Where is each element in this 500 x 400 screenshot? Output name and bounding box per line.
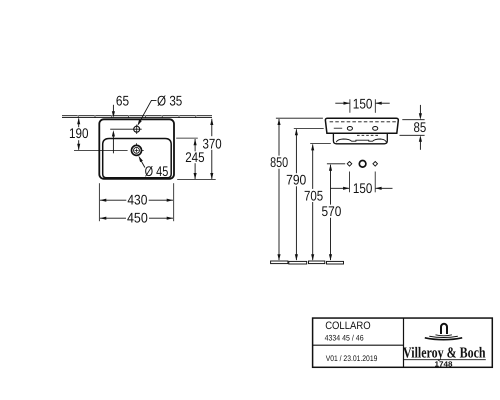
fixing hole right (oval) xyxy=(373,126,378,130)
wall tile line (plan) xyxy=(62,115,212,117)
washbasin inner bowl (plan) xyxy=(103,139,172,178)
title block frame xyxy=(313,318,493,367)
height ext line 705 xyxy=(310,143,331,145)
VB logo arch xyxy=(441,324,447,334)
drain center ticks xyxy=(135,149,139,151)
svg-text:Ø 45: Ø 45 xyxy=(145,163,169,179)
height ext line 790 xyxy=(294,127,324,129)
hidden dashes under body xyxy=(357,134,380,136)
VB logo wave 1 xyxy=(436,335,452,336)
tap hole centerlines xyxy=(110,128,142,130)
svg-text:65: 65 xyxy=(116,92,129,108)
fixing hole left (oval) xyxy=(347,126,352,130)
drain centerline (190 extension) xyxy=(74,149,128,151)
svg-text:705: 705 xyxy=(304,187,323,203)
VB wordmark underline xyxy=(404,359,486,361)
svg-text:150: 150 xyxy=(353,180,373,196)
connection diamond right xyxy=(373,162,378,167)
svg-text:85: 85 xyxy=(414,119,427,135)
svg-text:850: 850 xyxy=(270,154,288,170)
basin body (front elevation) xyxy=(325,118,398,133)
ext line bowl top right xyxy=(176,137,198,139)
dim 570 line xyxy=(329,164,332,170)
dim 190 line+arrows xyxy=(78,118,80,127)
leader for drain dia xyxy=(141,161,145,168)
VB logo wave 3 xyxy=(425,338,462,340)
svg-text:150: 150 xyxy=(353,96,373,112)
svg-text:COLLARO: COLLARO xyxy=(325,320,370,332)
svg-text:430: 430 xyxy=(127,192,147,208)
ext lines below basin xyxy=(98,183,100,221)
drain hole outer ring xyxy=(132,145,142,155)
svg-text:4334 45 / 46: 4334 45 / 46 xyxy=(325,333,364,342)
svg-text:Ø 35: Ø 35 xyxy=(157,92,182,108)
floor tile line xyxy=(271,261,344,264)
dim 65 upper arrow xyxy=(112,105,114,112)
drain fitting inner contour xyxy=(336,139,386,142)
leader for tap hole dia xyxy=(139,100,157,123)
title block vertical divider xyxy=(403,318,405,367)
svg-text:370: 370 xyxy=(203,135,222,151)
VB logo wave 2 xyxy=(429,336,458,337)
height ext line 850 xyxy=(276,117,323,119)
hidden rim line (dashed) xyxy=(330,121,396,123)
washbasin outer rim (plan) xyxy=(99,119,174,179)
svg-text:V01 / 23.01.2019: V01 / 23.01.2019 xyxy=(326,354,378,363)
svg-text:790: 790 xyxy=(286,172,306,188)
svg-text:1748: 1748 xyxy=(435,359,453,368)
svg-text:570: 570 xyxy=(322,203,342,219)
dim 245 line xyxy=(194,139,196,151)
svg-text:450: 450 xyxy=(127,210,148,226)
dim 85 arrows xyxy=(419,105,421,114)
drain fitting under body (trough) xyxy=(333,134,387,144)
dim 370 line xyxy=(211,119,213,136)
connection diamond left xyxy=(347,162,352,167)
title block horizontal divider xyxy=(313,344,404,346)
dim 790 line xyxy=(295,129,298,135)
dim 430 xyxy=(100,199,126,201)
dim 85 ext lines xyxy=(402,119,424,121)
tap hole circle xyxy=(134,126,140,132)
ext 570 line xyxy=(327,163,345,165)
dim 150 bottom ext lines xyxy=(349,172,351,193)
svg-text:245: 245 xyxy=(185,149,205,165)
dim 705 line xyxy=(311,144,314,150)
dim 65 lower arrow xyxy=(112,136,114,154)
svg-text:190: 190 xyxy=(69,125,89,141)
small hidden dash left xyxy=(334,127,342,129)
drain hole inner circle xyxy=(134,147,140,153)
ext line basin bottom right xyxy=(177,178,216,180)
dim 450 xyxy=(100,217,126,219)
water connection circle xyxy=(359,161,366,168)
dim 150 top arrows xyxy=(335,102,349,104)
dim 150 top ext lines xyxy=(349,99,351,113)
dim 850 line xyxy=(277,119,280,125)
dim 150 bottom arrows xyxy=(330,187,349,189)
